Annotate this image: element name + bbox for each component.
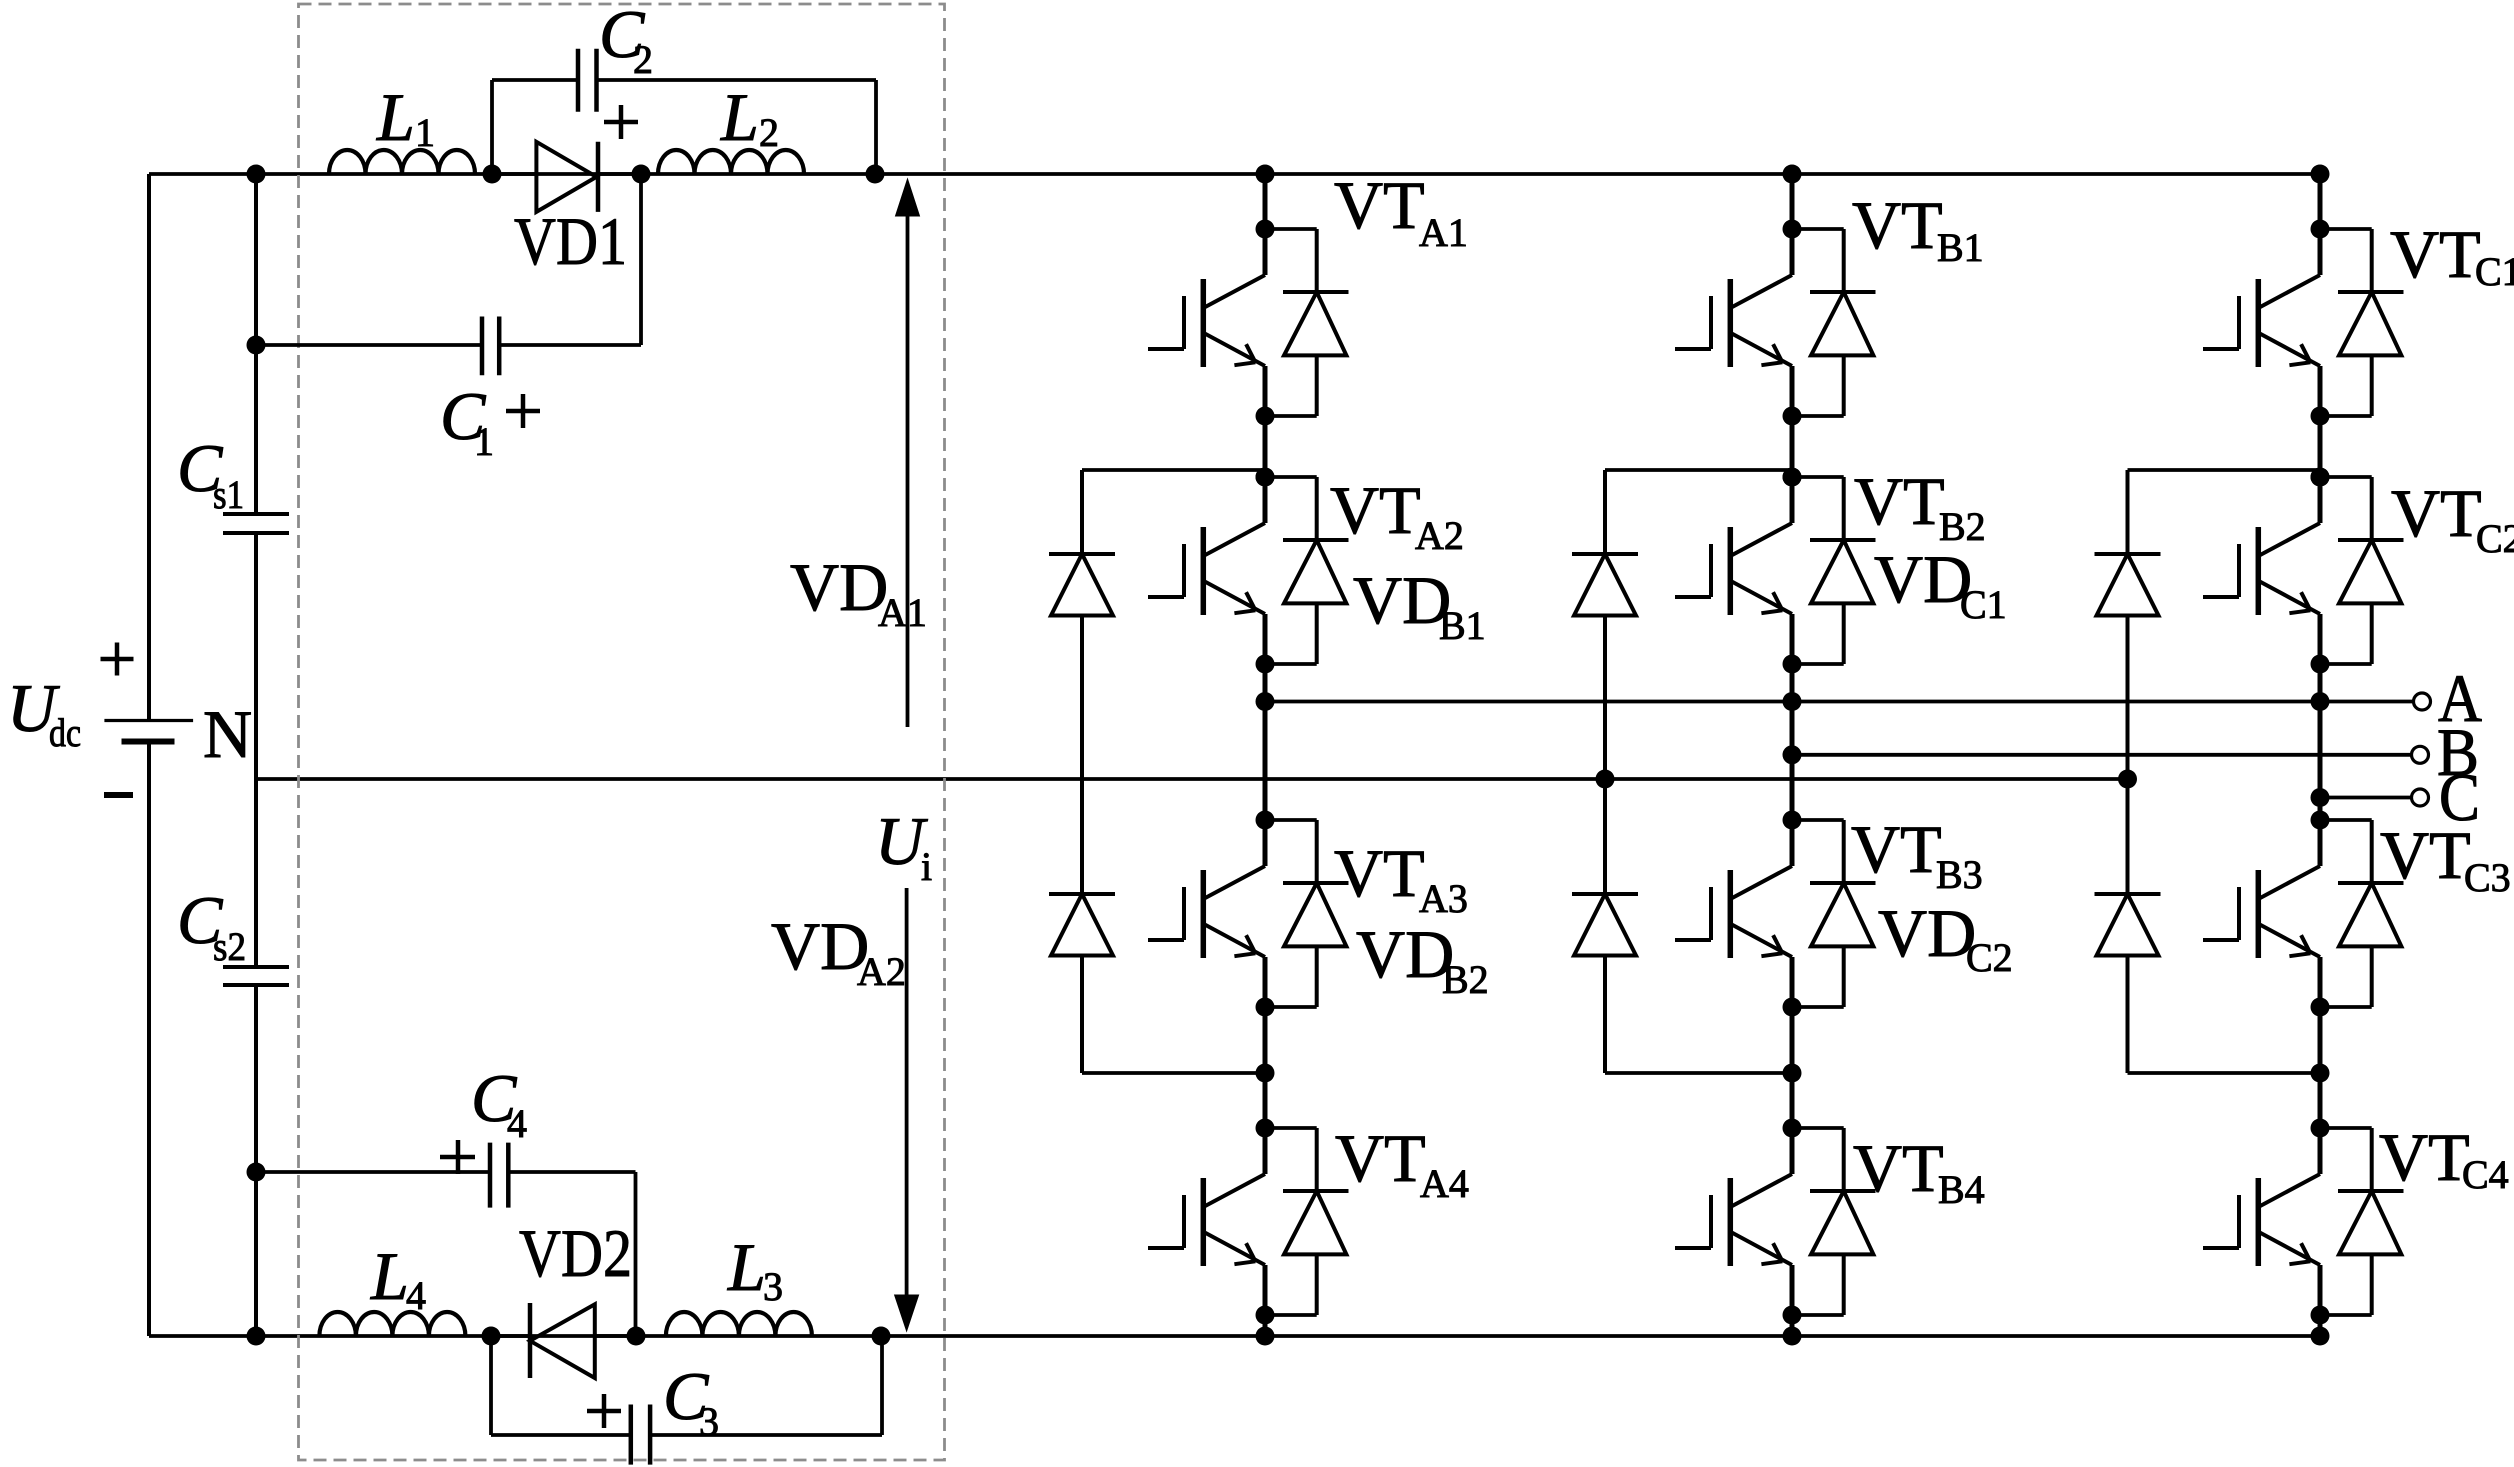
plus sign (C4 +) [440, 1140, 475, 1174]
wire phase A output line [1265, 700, 2413, 704]
junction dot A line at leg B [1783, 692, 1802, 711]
label VT_B1 [1852, 187, 1984, 270]
svg-text:VT: VT [1334, 835, 1425, 911]
svg-text:1: 1 [415, 110, 435, 155]
junction dot phase B top bus [1783, 165, 1802, 184]
svg-text:A2: A2 [1415, 513, 1464, 558]
plus sign (U_dc +) [101, 643, 134, 676]
label VT_B3 [1851, 811, 1983, 897]
label VT_A4 [1335, 1120, 1469, 1206]
svg-text:B1: B1 [1439, 603, 1486, 648]
label VD_C2 [1878, 895, 2013, 980]
transistor VT_A4 (IGBT with antiparallel diode) [1148, 1119, 1349, 1325]
junction dot C4 branch [247, 1163, 266, 1182]
svg-text:B4: B4 [1938, 1167, 1985, 1212]
junction dot clamp C at N line [2118, 770, 2137, 789]
label L2 [720, 79, 779, 155]
capacitor C2 [578, 49, 597, 112]
junction dot bottom-left rail [247, 1327, 266, 1346]
svg-text:A1: A1 [1419, 210, 1468, 255]
svg-text:4: 4 [507, 1101, 527, 1146]
junction dot clamp B at N line [1596, 770, 1615, 789]
label VD_C1 [1874, 541, 2007, 627]
svg-text:VD: VD [1353, 562, 1451, 638]
svg-text:L: L [720, 79, 759, 155]
svg-text:A2: A2 [857, 949, 906, 994]
svg-text:VD: VD [1878, 895, 1976, 971]
junction dot phase C clamp bottom [2311, 1064, 2330, 1083]
svg-text:VD1: VD1 [514, 203, 627, 279]
clamp diodes phase B (VD_B1/VD_B2 column) [1572, 470, 1792, 1073]
svg-text:VT: VT [1334, 167, 1425, 243]
wire left rail lower (U_dc - terminal) [147, 742, 151, 1337]
svg-text:C2: C2 [2476, 516, 2514, 561]
svg-text:VT: VT [2379, 1119, 2470, 1195]
wire phase C leg segments [2318, 174, 2323, 1336]
transistor VT_B1 (IGBT with antiparallel diode) [1675, 220, 1876, 426]
wire C2 branch [492, 80, 876, 174]
transistor VT_C1 (IGBT with antiparallel diode) [2203, 220, 2404, 426]
label VD_B2 [1356, 916, 1489, 1002]
junction dot top-left rail [247, 165, 266, 184]
junction dot C1 branch [247, 336, 266, 355]
battery U_dc [104, 721, 193, 742]
svg-text:s1: s1 [213, 472, 244, 517]
svg-text:A1: A1 [878, 590, 927, 635]
label VD_B1 [1353, 562, 1486, 648]
node N wire (neutral line to clamp diodes) [256, 777, 2128, 781]
wire phase C output line [2320, 796, 2411, 800]
svg-text:i: i [921, 844, 932, 889]
svg-text:VD: VD [771, 908, 869, 984]
svg-text:C1: C1 [2475, 249, 2514, 294]
transistor VT_B3 (IGBT with antiparallel diode) [1675, 811, 1876, 1017]
capacitor Cs1 [223, 514, 289, 533]
junction dot VD1 cathode [632, 165, 651, 184]
svg-text:VT: VT [2380, 817, 2471, 893]
svg-text:dc: dc [49, 710, 81, 755]
label U_i [875, 803, 932, 889]
label A [2438, 660, 2482, 736]
svg-text:VT: VT [1330, 472, 1421, 548]
label N [203, 696, 252, 772]
svg-text:VT: VT [1851, 811, 1942, 887]
junction dot phase C clamp top [2311, 468, 2330, 487]
svg-text:C1: C1 [1960, 582, 2007, 627]
svg-text:L: L [727, 1229, 766, 1305]
label C2 [599, 0, 653, 82]
label C3 [663, 1358, 719, 1444]
wire phase B output line [1792, 753, 2411, 757]
label VT_C4 [2379, 1119, 2509, 1197]
transistor VT_A2 (IGBT with antiparallel diode) [1148, 468, 1349, 674]
label Cs2 [177, 882, 246, 969]
svg-text:VD2: VD2 [519, 1215, 632, 1291]
label Cs1 [177, 430, 244, 517]
transistor VT_B4 (IGBT with antiparallel diode) [1675, 1119, 1876, 1325]
inductor L1 [329, 150, 475, 174]
junction dot phase B clamp top [1783, 468, 1802, 487]
arrow VD_A2 (down) [895, 888, 919, 1331]
label L3 [727, 1229, 783, 1309]
label C4 [471, 1060, 527, 1146]
junction dot phase A bottom bus [1256, 1327, 1275, 1346]
junction dot phase C bottom bus [2311, 1327, 2330, 1346]
label VD1 [514, 203, 627, 279]
diode VD1 [492, 142, 637, 212]
junction dot VD2 left [482, 1327, 501, 1346]
svg-text:C4: C4 [2462, 1152, 2509, 1197]
transistor VT_C2 (IGBT with antiparallel diode) [2203, 468, 2404, 674]
plus sign (C1 +) [506, 394, 540, 428]
capacitor C3 [631, 1405, 650, 1465]
wire left rail upper (U_dc + terminal) [147, 174, 151, 721]
label VT_C2 [2391, 475, 2514, 561]
svg-text:VT: VT [2391, 475, 2482, 551]
terminal B circle [2412, 746, 2429, 763]
svg-text:A4: A4 [1420, 1161, 1469, 1206]
label C1 [440, 378, 494, 464]
wire mid rail lower (Cs2 to bottom bus) [254, 985, 258, 1336]
plus sign (C2 +) [604, 105, 638, 139]
transistor VT_B2 (IGBT with antiparallel diode) [1675, 468, 1876, 674]
terminal C circle [2412, 789, 2429, 806]
svg-text:VT: VT [1852, 187, 1943, 263]
svg-text:VT: VT [1853, 1130, 1944, 1206]
label VT_A3 [1334, 835, 1468, 921]
junction dot VD1 anode [483, 165, 502, 184]
wire top DC+ bus [149, 172, 2320, 176]
inductor L3 [666, 1312, 812, 1336]
transistor VT_C3 (IGBT with antiparallel diode) [2203, 811, 2404, 1017]
svg-text:VD: VD [790, 549, 888, 625]
terminal A circle [2414, 693, 2431, 710]
label VT_B4 [1853, 1130, 1985, 1212]
svg-text:C3: C3 [2464, 855, 2511, 900]
svg-text:VD: VD [1356, 916, 1454, 992]
svg-text:4: 4 [406, 1273, 426, 1318]
svg-text:3: 3 [763, 1264, 783, 1309]
svg-text:N: N [203, 696, 252, 772]
inductor L4 [319, 1312, 465, 1336]
capacitor Cs2 [223, 967, 289, 985]
wire bottom DC- bus [149, 1334, 2320, 1338]
wire phase A leg segments [1263, 174, 1268, 1336]
svg-text:L: L [370, 1238, 409, 1314]
label VD2 [519, 1215, 632, 1291]
svg-text:VT: VT [1335, 1120, 1426, 1196]
junction dot phase C top bus [2311, 165, 2330, 184]
wire mid rail upper (top bus to Cs1) [254, 174, 258, 514]
wire C3 branch [491, 1336, 882, 1435]
transistor VT_A3 (IGBT with antiparallel diode) [1148, 811, 1349, 1017]
label B [2437, 714, 2479, 790]
dashed snubber box [299, 4, 945, 1460]
label L1 [376, 79, 435, 155]
junction dot C output at leg C [2311, 788, 2330, 807]
svg-text:C2: C2 [1966, 935, 2013, 980]
clamp diodes phase A (VD_A1/VD_A2 column) [1049, 470, 1265, 1073]
junction dot phase B bottom bus [1783, 1327, 1802, 1346]
arrow VD_A1 (up) [896, 179, 920, 727]
junction dot A line at leg C [2311, 692, 2330, 711]
capacitor C4 [490, 1143, 508, 1208]
label L4 [370, 1238, 426, 1318]
label C [2439, 759, 2480, 835]
svg-text:2: 2 [633, 37, 653, 82]
junction dot phase A clamp bottom [1256, 1064, 1275, 1083]
wire mid rail middle (Cs1 to Cs2) [254, 533, 258, 967]
label VD_A1 [790, 549, 927, 635]
svg-text:L: L [376, 79, 415, 155]
plus sign (C3 +) [587, 1394, 621, 1428]
svg-text:A3: A3 [1419, 876, 1468, 921]
label VD_A2 [771, 908, 906, 994]
svg-text:VT: VT [1854, 463, 1945, 539]
label VT_C3 [2380, 817, 2511, 900]
junction dot phase B clamp bottom [1783, 1064, 1802, 1083]
junction dot L3 right [872, 1327, 891, 1346]
junction dot L2 right [866, 165, 885, 184]
minus sign (U_dc -) [104, 792, 133, 798]
transistor VT_A1 (IGBT with antiparallel diode) [1148, 220, 1349, 426]
svg-text:B3: B3 [1936, 852, 1983, 897]
clamp diodes phase C (VD_C1/VD_C2 column) [2095, 470, 2321, 1073]
svg-text:1: 1 [474, 419, 494, 464]
capacitor C1 [482, 317, 499, 376]
inductor L2 [658, 150, 804, 174]
svg-text:B2: B2 [1442, 957, 1489, 1002]
wire C4 branch [256, 1172, 636, 1336]
junction dot phase A clamp top [1256, 468, 1275, 487]
junction dot B output at leg B [1783, 745, 1802, 764]
label U_dc [7, 670, 81, 755]
junction dot VD2 right [627, 1327, 646, 1346]
label VT_A1 [1334, 167, 1468, 255]
svg-text:B1: B1 [1937, 225, 1984, 270]
svg-text:2: 2 [759, 110, 779, 155]
wire C1 branch [256, 174, 641, 345]
label VT_A2 [1330, 472, 1464, 558]
junction dot phase A top bus [1256, 165, 1275, 184]
transistor VT_C4 (IGBT with antiparallel diode) [2203, 1119, 2404, 1325]
label VT_C1 [2390, 216, 2514, 294]
wire phase B leg segments [1790, 174, 1795, 1336]
svg-text:VD: VD [1874, 541, 1972, 617]
label VT_B2 [1854, 463, 1986, 549]
diode VD2 [491, 1303, 636, 1378]
svg-text:s2: s2 [213, 924, 246, 969]
svg-text:VT: VT [2390, 216, 2481, 292]
svg-text:3: 3 [699, 1399, 719, 1444]
junction dot A output at leg A [1256, 692, 1275, 711]
